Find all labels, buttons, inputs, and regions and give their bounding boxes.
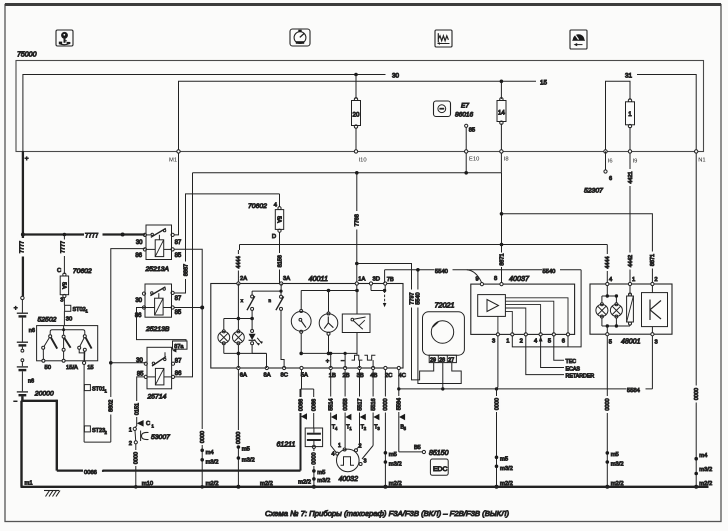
svg-text:ST02: ST02 [73,307,86,313]
svg-text:29: 29 [430,357,436,363]
svg-text:30: 30 [136,240,143,246]
svg-text:4C: 4C [399,373,406,379]
svg-text:4: 4 [335,426,338,431]
icon: gauge meter (top right) [570,30,587,49]
svg-text:+: + [14,305,18,312]
svg-text:3: 3 [377,426,380,431]
svg-text:n6: n6 [29,328,35,334]
svg-text:I10: I10 [359,158,367,164]
wire 0066 from pin 5A (thick) [297,370,314,471]
junction wire line y=172.8 [193,153,502,175]
svg-text:20000: 20000 [34,390,54,397]
svg-text:RETARDER: RETARDER [566,373,595,379]
wire RETARDER (pin 2) [526,335,595,379]
wire 8887 (25213B/87 to fuse line) [174,194,279,293]
wire 30 bus [23,73,386,151]
40037 internal fanout [498,298,568,334]
wire 7797 riser to 72021 [357,264,434,380]
svg-text:5: 5 [609,340,612,346]
connector ST01 [84,385,107,394]
svg-text:40037: 40037 [509,274,530,283]
svg-text:5514: 5514 [329,398,335,410]
svg-text:86: 86 [135,313,142,319]
svg-text:85: 85 [175,253,182,259]
svg-text:3B: 3B [357,373,364,379]
svg-text:+: + [25,156,29,163]
svg-text:5517: 5517 [357,398,363,410]
svg-text:0000: 0000 [236,432,242,444]
pulse symbol 1 (inside 40011) [352,355,363,368]
wire 0058 (pin 2B) [342,370,353,448]
svg-text:4444: 4444 [605,256,611,268]
switch 2 (inside 40011) [269,284,285,369]
wire 0000 from 40037 pin 3 [493,335,513,489]
svg-text:m3/2: m3/2 [699,467,712,473]
svg-text:1: 1 [338,443,341,449]
svg-text:8156: 8156 [277,255,283,267]
svg-text:0000: 0000 [134,452,140,464]
svg-text:2: 2 [520,338,523,344]
fuse 14 [497,81,506,151]
svg-text:7777: 7777 [61,241,67,253]
svg-text:ECAS: ECAS [566,366,581,372]
svg-text:2: 2 [364,426,367,431]
svg-text:14: 14 [498,110,505,117]
svg-text:31: 31 [625,73,633,80]
wire 7777 drop to fuse 70602 left [60,235,67,275]
svg-text:m2/2: m2/2 [298,480,311,486]
svg-text:30: 30 [392,73,400,80]
svg-text:30: 30 [136,358,143,364]
svg-text:1: 1 [628,111,632,118]
svg-text:5A: 5A [276,216,282,223]
terminal 87a of 25714 [172,341,187,353]
warning lamp 2 (inside 40011) [233,284,245,369]
wire 8871 horizontal to 48001 [502,214,657,283]
speed sensor 40032 [331,443,366,483]
svg-text:15: 15 [87,365,93,371]
svg-text:50: 50 [45,365,51,371]
svg-text:4B: 4B [370,373,377,379]
svg-text:5540: 5540 [435,269,448,275]
svg-text:x: x [241,298,244,303]
svg-text:2C: 2C [385,373,392,379]
svg-text:0000: 0000 [494,398,500,410]
svg-text:87: 87 [175,240,182,246]
svg-text:C: C [146,421,150,427]
svg-text:5: 5 [404,426,407,431]
svg-text:Схема № 7: Приборы (тахограф): Схема № 7: Приборы (тахограф) F3A/F3B (В… [265,509,509,518]
svg-text:85: 85 [469,128,475,134]
svg-text:m3/2: m3/2 [206,460,219,466]
diode / element C1 [137,419,155,428]
connector ST23 [84,426,107,435]
svg-text:6: 6 [609,176,612,182]
svg-text:5584: 5584 [627,388,641,394]
warning lamp 1 (inside 40011) [218,319,230,354]
svg-text:25213B: 25213B [145,326,170,333]
48001 lamps bottom bar [602,324,630,332]
svg-text:70602: 70602 [248,203,267,210]
svg-text:27: 27 [448,357,454,363]
wire 4444 drop to 48001 pin 4 [604,245,611,284]
wire 7768 [353,173,360,284]
svg-text:15/A: 15/A [66,365,78,371]
relay 25714 [136,347,182,400]
svg-text:m5: m5 [242,446,250,452]
svg-text:E10: E10 [469,157,479,163]
svg-text:8887: 8887 [183,264,189,276]
svg-text:+: + [326,359,330,365]
svg-text:m3/2: m3/2 [389,462,402,468]
instrument cluster 40011 [211,274,403,368]
svg-text:m2/2: m2/2 [260,481,273,487]
fuse 1 [626,99,635,151]
fuse 20 [352,75,361,152]
48001 lamp 2 [610,294,622,326]
svg-text:0000: 0000 [200,431,206,443]
wire 0066 thick ground link [57,467,301,476]
wire 0000 from relay 85 pins to ground [174,249,218,488]
svg-text:85150: 85150 [429,450,449,457]
wire 86 of 25213A to 25714/30 [111,249,146,363]
tachograph head 48001 [590,277,672,345]
svg-text:1: 1 [152,423,155,428]
svg-text:E7: E7 [461,103,469,110]
48001 lamp 1 [596,286,617,326]
svg-text:30: 30 [66,316,72,322]
buzzer 72021 [423,300,465,363]
svg-text:7797: 7797 [409,292,415,304]
wire 7777 horizontal bus (thick) [23,231,145,240]
svg-text:0000: 0000 [694,388,700,400]
svg-text:M1: M1 [169,158,177,164]
svg-text:87: 87 [175,296,182,302]
svg-text:0066: 0066 [298,399,304,411]
svg-text:4: 4 [609,277,613,283]
3D-7B internal link with arrow [371,285,386,307]
svg-text:m5: m5 [317,470,325,476]
svg-text:7777: 7777 [85,233,99,239]
pulse symbol 2 (inside 40011) [364,355,375,368]
wire 5540 loop to pin 1 [512,270,581,347]
wire 31 bus [637,75,696,152]
svg-text:ST01: ST01 [92,386,105,392]
svg-text:28: 28 [439,357,445,363]
wire 0000 to m10 [132,444,153,489]
ignition switch 52502 [37,316,98,371]
harness box 75000 [16,61,704,152]
svg-text:m3/2: m3/2 [611,462,624,468]
fuse 70602 left (5A) [57,268,92,305]
svg-text:0066: 0066 [312,399,318,411]
svg-text:8: 8 [494,276,497,282]
svg-text:I9: I9 [633,159,638,165]
svg-text:4: 4 [274,202,278,208]
svg-text:m4: m4 [699,453,708,459]
svg-text:4: 4 [331,452,334,458]
svg-text:53007: 53007 [151,434,170,441]
lamp bottom bar [224,352,267,354]
svg-text:7777: 7777 [20,241,26,253]
wire 0000 from N1 [693,153,712,489]
svg-text:D: D [272,234,276,240]
svg-text:15: 15 [540,79,548,86]
wire 8871 riser from fuse line [498,173,505,283]
indicator module (inside 40011) [342,291,370,356]
wire 5517 (pin 3B) [356,370,367,450]
40011 top pins [237,276,394,285]
svg-text:61211: 61211 [277,442,296,449]
svg-text:7B: 7B [387,277,394,283]
40037 bottom pins [492,333,570,345]
svg-text:m5: m5 [389,452,397,458]
wire 4444 bus y=244.5 [240,243,608,247]
wire 8156 fuse to pin 3A [276,232,283,283]
icon: recorder chart (top center-right) [435,30,452,47]
svg-text:2: 2 [105,430,108,435]
control unit 85150 EDC [429,450,449,476]
svg-text:1A: 1A [358,276,365,282]
svg-text:9: 9 [476,277,479,283]
wire 8802 / ST loop to ignition 15 [84,361,114,442]
svg-text:3: 3 [492,338,495,344]
svg-text:87: 87 [175,359,182,365]
svg-text:1: 1 [632,277,635,283]
wire M1 to relay 25213A pin 87 [174,153,178,235]
svg-text:5516: 5516 [371,398,377,410]
svg-text:n6: n6 [28,378,34,384]
battery positive riser wire [21,151,29,296]
wire TEC (pin 5) [554,335,576,365]
svg-text:1: 1 [105,388,108,393]
svg-text:m3/2: m3/2 [317,478,330,484]
rail connector labels [169,157,706,165]
svg-text:4: 4 [534,338,538,344]
svg-text:1: 1 [506,338,509,344]
svg-text:70602: 70602 [73,268,92,275]
svg-text:n: n [269,298,272,303]
LED indicator (inside 40011) [249,319,267,369]
amplifier 40037 [471,274,575,334]
connector 6 of 52307 [584,151,612,194]
ground symbol (battery) [44,491,60,497]
svg-text:1: 1 [129,427,132,433]
wire 5540 riser to 72021 [415,270,462,384]
svg-text:87a: 87a [174,344,184,350]
svg-text:4421: 4421 [628,171,634,183]
48001 speed unit K [642,286,668,333]
svg-text:m5: m5 [611,452,619,458]
svg-text:0151: 0151 [135,403,141,415]
connector terminals on harness rail [177,150,698,153]
svg-text:5A: 5A [60,282,66,289]
40037 top pins [476,276,504,286]
pin 85 of E7 [465,124,476,151]
wire 4444 drop to pin 2A [235,245,242,284]
svg-text:8802: 8802 [108,400,114,412]
gauges bottom bar with +/- [301,352,357,368]
40011 bottom pins [237,366,406,378]
wire 0000 (pin 2C) [382,370,402,489]
wire 5516 (pin 4B) [362,370,380,459]
svg-text:86: 86 [175,371,182,377]
switch 1 (inside 40011) [241,291,281,317]
battery minus thick wire to ground [21,396,57,487]
svg-text:8A: 8A [264,373,271,379]
svg-text:m1: m1 [25,481,33,487]
svg-text:3A: 3A [283,276,290,282]
gauge rail top (inside 40011) [301,285,359,292]
svg-text:86: 86 [135,253,142,259]
svg-text:85: 85 [175,310,182,316]
svg-text:m4: m4 [206,450,215,456]
svg-text:20: 20 [353,112,360,119]
svg-text:30: 30 [135,298,142,304]
svg-text:C: C [57,268,61,274]
relay 25213A [135,225,182,273]
svg-text:0000: 0000 [383,398,389,410]
svg-text:48001: 48001 [621,339,641,346]
wire 25213B/86 to terminal 87a [137,308,187,342]
gauge 2 (inside 40011) [319,291,338,356]
svg-text:3: 3 [364,459,367,465]
svg-text:0000: 0000 [312,452,318,464]
wire 28 to 5584 link [442,363,444,389]
svg-text:TEC: TEC [566,359,577,365]
wire 0000 below 61211 [298,449,330,489]
relay 25213B [135,284,182,333]
fuse 70602 right (5A) [248,194,284,240]
connector ST02 [64,305,88,325]
svg-text:m3/2: m3/2 [500,466,513,472]
wire 0000 from 48001 pin 5 [604,336,624,489]
wire 5584 (pin 4C) to EDC [395,370,425,454]
wire 5584 riser from 48001 pin 3 [651,336,653,389]
capacitor 61211 [277,389,323,449]
icon: tachograph clock (top center) [290,29,310,46]
svg-text:5540: 5540 [416,292,422,304]
svg-text:6A: 6A [240,373,247,379]
svg-text:3D: 3D [373,276,380,282]
svg-text:4444: 4444 [236,256,242,268]
svg-text:6: 6 [562,338,565,344]
svg-text:N1: N1 [698,158,705,164]
svg-text:1B: 1B [329,373,336,379]
wire 4442 from fuse 1 to 48001 [627,153,634,283]
svg-text:m3/2: m3/2 [242,458,255,464]
battery 20000 [14,296,54,405]
wire 15 bus [179,80,537,152]
svg-text:86016: 86016 [455,112,473,119]
svg-text:I8: I8 [504,157,509,163]
svg-text:ST23: ST23 [92,428,105,434]
svg-text:1: 1 [349,426,352,431]
svg-text:8871: 8871 [499,253,505,265]
svg-text:−: − [341,358,345,364]
svg-text:EDC: EDC [433,466,447,473]
svg-text:B5: B5 [414,445,421,451]
svg-text:−: − [14,399,18,406]
svg-text:25714: 25714 [147,393,167,400]
svg-text:0000: 0000 [605,398,611,410]
svg-text:3: 3 [655,340,658,346]
wire 0151 from 25714/85 [133,377,144,419]
svg-text:2A: 2A [240,276,247,282]
svg-text:5: 5 [548,338,551,344]
svg-text:52307: 52307 [584,188,603,195]
ground bus m2/2 [21,481,709,489]
wire 0000 from pin 6A [235,370,273,487]
wire to fuse 1 from I6 [606,81,631,151]
wire label 7777 (battery riser) [18,238,26,257]
svg-text:2: 2 [654,277,657,283]
relay E7 86016 [434,101,474,119]
48001 resistor element [627,286,634,326]
svg-text:2B: 2B [343,373,350,379]
svg-text:40032: 40032 [339,476,359,483]
svg-text:52502: 52502 [38,316,57,323]
pin 15 of 52502 [83,361,86,364]
svg-text:72021: 72021 [435,300,455,309]
svg-text:I6: I6 [608,159,613,165]
svg-text:5540: 5540 [543,269,556,275]
svg-text:0058: 0058 [343,398,349,410]
svg-text:8871: 8871 [650,254,656,266]
svg-text:8C: 8C [281,373,288,379]
wire from junction line to 25714/86 [175,173,193,377]
lamp top bar [224,317,254,321]
wire ECAS (pin 4) [539,335,581,372]
svg-text:2: 2 [129,441,132,447]
svg-text:7768: 7768 [355,214,361,226]
wire 5514 (pin 1B) [327,370,338,453]
svg-text:0066: 0066 [84,470,97,476]
icon: ignition key (top left) [56,30,73,46]
svg-text:1: 1 [86,309,89,314]
svg-text:25213A: 25213A [145,266,170,273]
gauge 1 (inside 40011) [291,291,311,356]
svg-text:5584: 5584 [397,398,403,410]
svg-text:m5: m5 [500,457,508,463]
svg-text:4442: 4442 [628,255,634,267]
wire 5584 horizontal link [397,385,652,394]
svg-text:75000: 75000 [17,52,37,59]
svg-text:2: 2 [359,444,362,450]
wire 5540 bus to 40037 [385,266,581,283]
svg-text:40011: 40011 [309,274,328,283]
component 53007 [129,426,170,447]
svg-text:3: 3 [60,298,63,304]
